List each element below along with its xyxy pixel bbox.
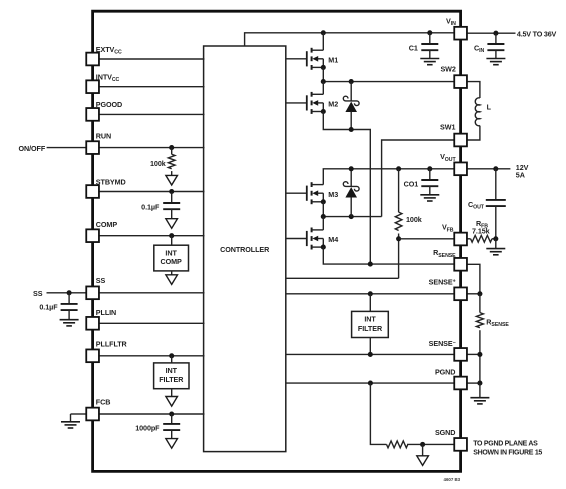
svg-text:PLLIN: PLLIN xyxy=(96,308,116,317)
ground (earth) below SS cap xyxy=(60,320,79,326)
svg-text:FILTER: FILTER xyxy=(358,324,383,333)
svg-text:INT: INT xyxy=(364,314,376,323)
wire RUN to controller xyxy=(99,147,205,149)
svg-text:FCB: FCB xyxy=(96,397,111,406)
wire SENSE+ pin right xyxy=(467,293,480,295)
resistor RSENSE (external) xyxy=(479,294,481,313)
wire VFB to tap xyxy=(399,238,455,240)
junction VOUT/COUT xyxy=(493,166,498,171)
junction VIN/C1 xyxy=(427,30,432,35)
junction SGND/ground xyxy=(420,442,425,447)
pin SS xyxy=(86,286,99,299)
transistor M3 xyxy=(286,182,326,204)
svg-text:ON/OFF: ON/OFF xyxy=(19,144,46,153)
junction SENSE-/INT FILTER xyxy=(368,352,373,357)
wire M4 drain to rail xyxy=(322,217,324,230)
capacitor CO1 xyxy=(429,169,431,180)
svg-text:PLLFLTR: PLLFLTR xyxy=(96,340,128,349)
capacitor 0.1uF (STBYMD) xyxy=(171,192,173,204)
svg-text:100k: 100k xyxy=(150,159,166,168)
capacitor COUT xyxy=(495,169,497,200)
junction VIN/M1 drain xyxy=(321,30,326,35)
junction VOUT/CO1 xyxy=(427,166,432,171)
svg-text:1000pF: 1000pF xyxy=(135,424,160,433)
svg-text:SENSE−: SENSE− xyxy=(429,339,456,348)
svg-text:SW1: SW1 xyxy=(440,122,455,131)
pin PGOOD xyxy=(86,108,99,121)
svg-text:SHOWN IN FIGURE 15: SHOWN IN FIGURE 15 xyxy=(473,450,542,457)
svg-text:RSENSE: RSENSE xyxy=(433,248,456,259)
svg-text:VIN: VIN xyxy=(446,16,456,27)
wire EXTVCC to controller xyxy=(99,58,205,60)
pin SW2 xyxy=(454,75,467,88)
junction RUN/100k xyxy=(169,145,174,150)
wire STBYMD to controller xyxy=(99,191,205,193)
wire RSENSE pin right xyxy=(467,264,480,294)
pin RSENSE xyxy=(454,258,467,271)
wire SENSE- pin right xyxy=(467,353,480,355)
pin VIN xyxy=(454,27,467,40)
block INT COMP xyxy=(154,245,189,271)
junction VOUT/D3 xyxy=(349,166,354,171)
ground (earth) below C1 xyxy=(420,59,439,65)
svg-text:M3: M3 xyxy=(328,190,338,199)
svg-text:PGOOD: PGOOD xyxy=(96,100,122,109)
pin SW1 xyxy=(454,134,467,147)
wire INTVCC to controller xyxy=(99,86,205,88)
ground (earth) at FCB xyxy=(70,414,72,422)
wire SW2 pin to inductor xyxy=(467,82,480,98)
svg-text:TO PGND PLANE AS: TO PGND PLANE AS xyxy=(473,441,538,448)
junction D3 anode xyxy=(349,214,354,219)
svg-text:M1: M1 xyxy=(328,55,338,64)
wire INT FILTER bottom lead xyxy=(369,338,371,355)
wire M1 source to SW2 rail xyxy=(322,67,324,81)
junction SW2/D2 xyxy=(349,79,354,84)
wire M3 drain to VOUT rail xyxy=(323,169,454,185)
wire inductor to SW1 pin xyxy=(467,126,480,140)
capacitor 1000pF xyxy=(171,414,173,424)
junction SENSE-/RSENSE resistor xyxy=(477,352,482,357)
svg-text:C1: C1 xyxy=(409,43,418,52)
wire SS to controller xyxy=(99,292,205,294)
svg-text:100k: 100k xyxy=(406,215,422,224)
diode D2 (across M2) xyxy=(350,82,352,101)
wire INT COMP to ground xyxy=(171,271,173,275)
pin PGND xyxy=(454,377,467,390)
svg-text:FILTER: FILTER xyxy=(159,375,184,384)
junction VFB tap xyxy=(396,236,401,241)
svg-text:SS: SS xyxy=(33,289,43,298)
wire to INT FILTER xyxy=(171,356,173,363)
junction RFB/COUT xyxy=(493,236,498,241)
pin PLLFLTR xyxy=(86,349,99,362)
junction STBYMD/0.1uF xyxy=(169,189,174,194)
wire VIN rail from controller top xyxy=(245,33,455,46)
ground (earth) below CIN xyxy=(486,59,505,65)
junction SS/0.1uF xyxy=(67,290,72,295)
capacitor 0.1uF (SS) xyxy=(68,293,70,304)
diode D3 (across M3) xyxy=(350,169,352,187)
svg-text:VOUT: VOUT xyxy=(440,152,456,163)
capacitor CIN xyxy=(495,33,497,44)
transistor M4 xyxy=(286,228,326,250)
junction COMP/INT COMP xyxy=(169,233,174,238)
svg-text:RUN: RUN xyxy=(96,132,111,141)
pin STBYMD xyxy=(86,185,99,198)
resistor 100k (RUN pulldown) xyxy=(171,148,173,155)
junction SW2/M1/M2 xyxy=(321,79,326,84)
wire M3 source to rail xyxy=(322,202,324,217)
wire SENSE- rail xyxy=(286,353,455,355)
wire PGND pin right xyxy=(467,382,480,384)
svg-text:7.15k: 7.15k xyxy=(472,226,490,235)
svg-text:PGND: PGND xyxy=(435,367,455,376)
svg-text:INT: INT xyxy=(166,366,178,375)
wire 100k bottom to controller xyxy=(286,277,399,279)
wire SW1 to M3/M4 rail xyxy=(382,140,455,217)
wire M3/M4 rail xyxy=(323,216,381,218)
pin SENSE- xyxy=(454,348,467,361)
svg-text:4607 B3: 4607 B3 xyxy=(444,477,461,482)
svg-text:SS: SS xyxy=(96,276,106,285)
svg-text:0.1µF: 0.1µF xyxy=(141,203,160,212)
pin INTVCC xyxy=(86,80,99,93)
ground (signal) below 1000pF xyxy=(166,439,178,449)
block INT FILTER xyxy=(154,363,189,389)
resistor RFB 7.15k xyxy=(467,238,471,240)
pin SENSE+ xyxy=(454,287,467,300)
wire FCB external to ground xyxy=(71,413,87,415)
wire M2 source rail xyxy=(323,112,370,264)
pin RUN xyxy=(86,141,99,154)
junction PGND/SGND branch xyxy=(368,381,373,386)
pin VFB xyxy=(454,233,467,246)
wire M4 source to RSENSE rail xyxy=(323,247,454,264)
wire ON/OFF to RUN pin xyxy=(47,147,87,149)
IC outline border xyxy=(93,11,461,471)
junction PGND/RSENSE bottom xyxy=(477,381,482,386)
svg-text:CONTROLLER: CONTROLLER xyxy=(220,245,270,254)
svg-text:STBYMD: STBYMD xyxy=(96,177,126,186)
resistor 100k (VOUT divider) xyxy=(398,169,400,212)
ground (signal) below SGND wire xyxy=(422,444,424,455)
svg-text:EXTVCC: EXTVCC xyxy=(96,45,122,56)
svg-text:SW2: SW2 xyxy=(440,65,455,74)
svg-text:SGND: SGND xyxy=(435,428,455,437)
inductor L xyxy=(475,98,480,126)
svg-text:5A: 5A xyxy=(516,171,525,180)
svg-text:RSENSE: RSENSE xyxy=(486,318,509,329)
wire PLLFLTR to controller xyxy=(99,355,205,357)
wire M2 drain to SW2 rail xyxy=(322,82,324,95)
svg-text:COMP: COMP xyxy=(96,220,118,229)
svg-text:VFB: VFB xyxy=(442,223,454,234)
junction SENSE+/RSENSE resistor xyxy=(477,291,482,296)
pin PLLIN xyxy=(86,317,99,330)
svg-text:COUT: COUT xyxy=(468,200,485,211)
wire VIN right to supply xyxy=(467,32,516,34)
wire PLLIN to controller xyxy=(99,322,205,324)
pin COMP xyxy=(86,229,99,242)
ground (signal) below 100k xyxy=(166,175,178,185)
wire INT FILTER to ground xyxy=(171,389,173,397)
svg-text:CO1: CO1 xyxy=(404,180,419,189)
ground (signal) below INT FILTER xyxy=(166,397,178,407)
junction D2 anode/M2 source rail xyxy=(349,127,354,132)
svg-text:4.5V TO 36V: 4.5V TO 36V xyxy=(517,30,557,39)
svg-text:M2: M2 xyxy=(328,100,338,109)
transistor M2 xyxy=(286,92,326,114)
wire VOUT right to output xyxy=(467,168,511,170)
wire INT FILTER top lead xyxy=(369,294,371,312)
ground (earth) below RFB xyxy=(495,239,497,249)
svg-text:CIN: CIN xyxy=(474,43,485,54)
ground (earth) below CO1 xyxy=(420,195,439,201)
svg-text:SENSE+: SENSE+ xyxy=(429,278,456,287)
junction FCB/1000pF xyxy=(169,411,174,416)
pin SGND xyxy=(454,438,467,451)
wire SS external xyxy=(47,292,87,294)
junction PLLFLTR/INT FILTER xyxy=(169,353,174,358)
controller block U1 xyxy=(204,46,286,452)
wire to INT COMP xyxy=(171,236,173,246)
svg-text:M4: M4 xyxy=(328,235,338,244)
junction M3/M4 rail xyxy=(321,214,326,219)
junction SENSE+/INT FILTER xyxy=(368,291,373,296)
ground (signal) below 0.1uF xyxy=(166,219,178,229)
junction RSENSE rail/vertical xyxy=(368,262,373,267)
pin VOUT xyxy=(454,162,467,175)
wire SW2 rail xyxy=(323,81,454,83)
pin EXTVCC xyxy=(86,53,99,66)
capacitor C1 xyxy=(429,33,431,44)
ground (signal) below INT COMP xyxy=(166,275,178,285)
wire FCB to controller xyxy=(99,413,205,415)
wire PGND rail xyxy=(286,382,455,384)
wire COMP to controller xyxy=(99,235,205,237)
junction VIN/CIN xyxy=(493,31,498,36)
junction VOUT/100k xyxy=(396,166,401,171)
resistor (SGND) xyxy=(387,441,408,448)
wire resistor to SGND pin xyxy=(407,443,454,445)
wire SENSE+ rail xyxy=(286,293,455,295)
transistor M1 xyxy=(286,48,326,70)
wire PGOOD to controller xyxy=(99,113,205,115)
wire M1 drain to VIN rail xyxy=(322,33,324,50)
ground (earth) below PGND xyxy=(479,383,481,398)
pin FCB xyxy=(86,408,99,421)
svg-text:COMP: COMP xyxy=(160,257,182,266)
svg-text:0.1µF: 0.1µF xyxy=(39,302,58,311)
wire SGND branch xyxy=(370,383,386,444)
block INT FILTER (sense) xyxy=(352,311,389,337)
svg-text:L: L xyxy=(487,103,492,112)
